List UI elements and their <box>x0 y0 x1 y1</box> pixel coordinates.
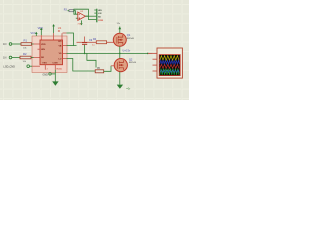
svg-text:HO: HO <box>58 41 62 43</box>
svg-text:R1: R1 <box>24 39 28 43</box>
svg-text:SD: SD <box>41 57 44 59</box>
svg-text:IRF540: IRF540 <box>127 38 135 40</box>
svg-text:VSS: VSS <box>42 62 47 64</box>
svg-text:LO: LO <box>58 58 61 60</box>
svg-text:COM: COM <box>52 62 57 64</box>
svg-text:SD: SD <box>98 16 101 18</box>
svg-text:U+0.5v: U+0.5v <box>123 50 131 53</box>
svg-text:IRF540: IRF540 <box>129 62 137 64</box>
svg-text:1N: 1N <box>3 56 6 60</box>
svg-text:VCC: VCC <box>31 32 36 35</box>
svg-text:HIN: HIN <box>41 49 45 51</box>
svg-text:HIN: HIN <box>98 10 102 12</box>
svg-text:VB: VB <box>58 45 61 47</box>
svg-text:IR: IR <box>58 30 61 33</box>
svg-text:Q2: Q2 <box>129 57 133 61</box>
svg-text:LIN: LIN <box>98 13 102 15</box>
svg-text:GND: GND <box>43 73 49 76</box>
svg-text:I_SD_CND: I_SD_CND <box>3 65 15 68</box>
svg-text:1N: 1N <box>3 42 6 46</box>
svg-text:COM: COM <box>98 20 103 22</box>
svg-text:R2: R2 <box>23 52 27 56</box>
svg-text:VDD: VDD <box>41 44 46 46</box>
svg-text:Q1: Q1 <box>127 33 131 37</box>
